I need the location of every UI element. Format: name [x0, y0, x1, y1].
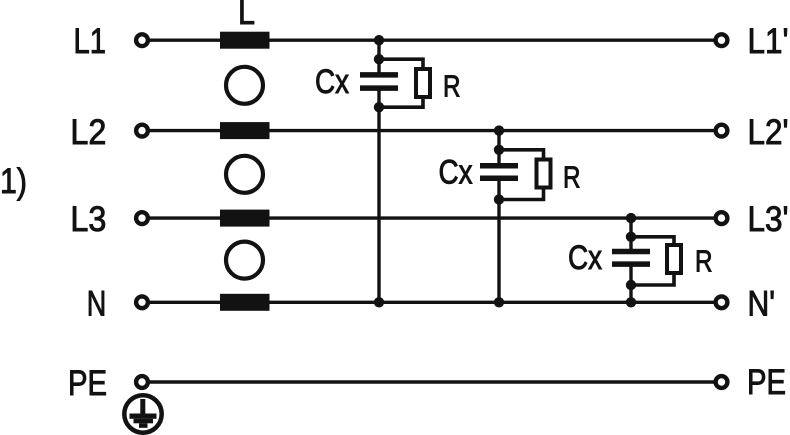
svg-text:R: R: [695, 245, 713, 279]
terminal L3' right: [716, 212, 728, 224]
svg-text:L1: L1: [74, 21, 107, 61]
ground symbol bar 1: [130, 414, 157, 419]
node dot B2 on N: [494, 297, 504, 307]
node dot B2 R-branch top: [494, 145, 504, 155]
svg-text:PE: PE: [68, 363, 107, 403]
wire L3: [149, 216, 714, 219]
svg-text:L: L: [238, 0, 255, 32]
capacitor Cx2 bottom plate: [480, 175, 518, 181]
resistor R1: [416, 69, 430, 97]
terminal N left: [136, 296, 148, 308]
node dot B1 on N: [374, 297, 384, 307]
node dot B3 on N: [626, 297, 636, 307]
terminal L3 left: [136, 212, 148, 224]
wire R2 loop bottom: [499, 188, 544, 200]
node dot B3 R-branch top: [626, 232, 636, 242]
choke core circle 2: [226, 156, 263, 193]
node dot B3 on L3: [626, 213, 636, 223]
wire branch 2 upper: [497, 131, 500, 166]
svg-text:L3': L3': [748, 199, 789, 239]
wire N: [149, 301, 714, 304]
node dot B3 R-branch bottom: [626, 280, 636, 290]
node dot B2 R-branch bottom: [494, 194, 504, 204]
resistor R3: [667, 245, 681, 273]
wire R3 loop top: [631, 237, 674, 245]
wire branch 1 lower: [377, 88, 380, 302]
wire R2 loop top: [499, 150, 544, 160]
wire R1 loop bottom: [379, 97, 423, 107]
node dot B1 on L1: [374, 35, 384, 45]
wire branch 3 lower: [629, 264, 632, 302]
wire branch 1 upper: [377, 40, 380, 75]
wire PE: [149, 380, 714, 383]
svg-text:Cx: Cx: [315, 63, 349, 101]
node dot B1 R-branch bottom: [374, 102, 384, 112]
svg-text:R: R: [443, 70, 461, 104]
capacitor Cx1 top plate: [360, 72, 398, 78]
svg-text:L2': L2': [748, 112, 789, 152]
capacitor Cx3 top plate: [612, 249, 650, 255]
svg-text:L1': L1': [748, 21, 789, 61]
wire R1 loop top: [379, 59, 423, 69]
svg-text:L3: L3: [70, 199, 106, 239]
resistor R2: [537, 160, 551, 188]
inductor L winding row N: [220, 294, 270, 311]
svg-text:R: R: [563, 161, 581, 195]
ground symbol circle: [124, 395, 161, 432]
wire L1: [149, 39, 714, 42]
terminal L2 left: [136, 125, 148, 137]
ground symbol bar 2: [134, 419, 154, 424]
svg-text:N': N': [748, 284, 776, 324]
node dot B2 on L2: [494, 125, 504, 135]
terminal N' right: [716, 296, 728, 308]
wire R3 loop bottom: [631, 273, 674, 285]
capacitor Cx3 bottom plate: [612, 261, 650, 267]
terminal PE left: [136, 376, 148, 388]
terminal L2' right: [716, 125, 728, 137]
svg-text:1): 1): [0, 161, 27, 201]
choke core circle 1: [226, 67, 263, 104]
terminal L1' right: [716, 34, 728, 46]
terminal L1 left: [136, 34, 148, 46]
wire L2: [149, 129, 714, 132]
capacitor Cx2 top plate: [480, 163, 518, 169]
svg-text:Cx: Cx: [568, 239, 602, 277]
wire branch 2 lower: [497, 178, 500, 302]
wire branch 3 upper: [629, 218, 632, 251]
svg-text:N: N: [87, 284, 107, 324]
terminal PE' right: [716, 376, 728, 388]
choke core circle 3: [226, 242, 263, 279]
ground symbol stem: [140, 399, 145, 415]
capacitor Cx1 bottom plate: [360, 85, 398, 91]
inductor L winding row L3: [220, 210, 270, 227]
node dot B1 R-branch top: [374, 54, 384, 64]
svg-text:PE: PE: [747, 362, 786, 402]
svg-text:L2: L2: [70, 112, 106, 152]
svg-text:Cx: Cx: [439, 153, 473, 191]
inductor L winding row L2: [220, 122, 270, 139]
ground symbol bar 3: [139, 423, 148, 428]
inductor L winding row L1: [220, 32, 270, 49]
